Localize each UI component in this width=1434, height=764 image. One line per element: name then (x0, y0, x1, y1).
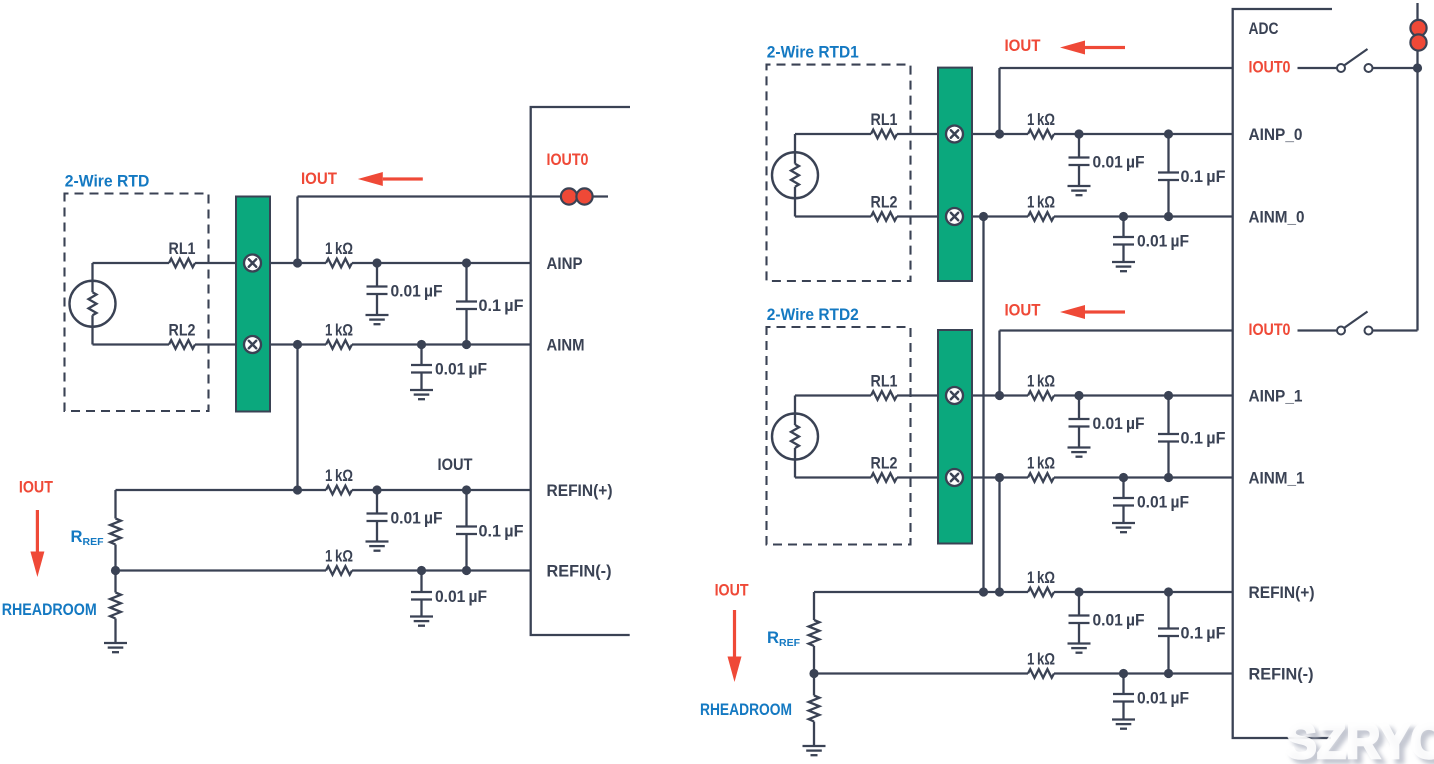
svg-text:0.1 µF: 0.1 µF (1181, 167, 1226, 186)
wire RTD1 RL1 left segment (795, 133, 871, 135)
junction REFIN(+)/AINM_1 vertical (995, 587, 1004, 596)
ground below C2 (410, 373, 433, 400)
resistor RL2 (169, 340, 195, 349)
junction REFIN(+)/C13 node (1074, 587, 1083, 596)
svg-text:IOUT0: IOUT0 (1249, 320, 1291, 339)
junction AINP/C1 node (372, 258, 381, 267)
capacitor C10 0.01uF (AINP_1) (1069, 396, 1090, 427)
wire IOUT ch0 horizontal (1000, 67, 1233, 69)
capacitor C2 0.01uF (AINM) (411, 345, 432, 373)
svg-text:1 kΩ: 1 kΩ (325, 547, 353, 566)
wire RREF to REFIN(-) node (right) (813, 646, 815, 674)
svg-text:0.01 µF: 0.01 µF (1093, 611, 1145, 630)
svg-text:REFIN(-): REFIN(-) (547, 562, 612, 581)
wire RTD1 RL2 left segment (795, 215, 871, 217)
svg-text:0.01 µF: 0.01 µF (435, 360, 487, 379)
wire RHEADROOM to ground (right) (813, 722, 815, 747)
junction AINM/C2 node (417, 340, 426, 349)
wire AINP row from terminal block (270, 262, 326, 264)
wire REFIN(-) node down to RHEADROOM (114, 571, 116, 593)
terminal screw contact lower (RTD1) (946, 208, 963, 225)
wire RREF to REFIN(-) node (114, 545, 116, 571)
capacitor C6 0.1uF (REFIN+-REFIN-) (456, 490, 477, 571)
capacitor C1 0.01uF (AINP) (367, 263, 388, 294)
resistor RL1 (RTD1) (871, 130, 897, 139)
svg-text:1 kΩ: 1 kΩ (1027, 193, 1055, 212)
svg-text:AINM_1: AINM_1 (1249, 469, 1305, 488)
svg-text:AINP_0: AINP_0 (1249, 125, 1303, 144)
svg-text:IOUT: IOUT (1005, 36, 1041, 55)
wire IOUT ch0 vertical to AINP_0 (998, 68, 1000, 134)
svg-text:1 kΩ: 1 kΩ (325, 321, 353, 340)
ground below RHEADROOM (right) (803, 746, 826, 755)
resistor RHEADROOM (right) (809, 696, 820, 722)
wire AINM_1 row from terminal block (972, 476, 1028, 478)
wire RTD1 RL2 right segment (897, 215, 939, 217)
junction REFIN(-)/RREF node (111, 566, 120, 575)
svg-text:1 kΩ: 1 kΩ (325, 466, 353, 485)
svg-text:REFIN(+): REFIN(+) (1249, 583, 1315, 602)
junction REFIN(-)/C15 node (1164, 669, 1173, 678)
junction AINP_0/C9 node (1164, 129, 1173, 138)
svg-text:IOUT: IOUT (715, 581, 749, 600)
wire RTD2 RL1 left segment (795, 394, 871, 396)
wire AINM node down to REFIN(+) node (296, 345, 298, 491)
svg-text:0.1 µF: 0.1 µF (1181, 429, 1226, 448)
junction REFIN(-)/C14 node (1119, 669, 1128, 678)
RTD sensor element (left) (70, 263, 116, 345)
capacitor C7 0.01uF (AINP_0) (1069, 134, 1090, 165)
ADC block outline (left circuit) (531, 107, 630, 635)
svg-text:RHEADROOM: RHEADROOM (2, 600, 97, 619)
junction AINM_1 vertical node (995, 473, 1004, 482)
2-Wire RTD1 dashed box (767, 65, 911, 281)
ground below C5 (410, 600, 433, 626)
wire IOUT0 ch0 pin to switch (1298, 67, 1338, 69)
wire RL2 left segment (93, 343, 170, 345)
terminal block (green bar, left) (236, 197, 270, 412)
resistor RL2 (RTD2) (871, 473, 897, 482)
resistor 1 kOhm (AINP) (326, 259, 352, 268)
RTD2 sensor element (772, 396, 818, 478)
resistor RREF (right) (809, 620, 820, 646)
resistor 1 kOhm (AINM) (326, 340, 352, 349)
junction REFIN(-)/C6 node (462, 566, 471, 575)
capacitor C8 0.01uF (AINM_0) (1113, 217, 1134, 245)
junction AINM/C3 node (462, 340, 471, 349)
resistor RL2 (RTD1) (871, 212, 897, 221)
wire IOUT horizontal to IOUT0 pin (298, 195, 609, 197)
svg-text:0.01 µF: 0.01 µF (1137, 689, 1189, 708)
capacitor C12 0.1uF (AINP_1-AINM_1) (1158, 396, 1179, 478)
svg-text:AINP_1: AINP_1 (1249, 387, 1303, 406)
wire RL1 right segment into terminal block (195, 262, 237, 264)
ground below C8 (1112, 245, 1135, 272)
IOUT0 terminal red circles (right, stacked) (1410, 20, 1426, 36)
junction AINM_1/C11 node (1119, 473, 1128, 482)
svg-text:RL2: RL2 (871, 193, 898, 212)
svg-text:IOUT: IOUT (19, 478, 53, 497)
wire REFIN(-) node down to RHEADROOM (right) (813, 674, 815, 696)
ground below C11 (1112, 506, 1135, 533)
capacitor C14 0.01uF (REFIN- right) (1113, 674, 1134, 702)
terminal screw contact lower (left) (244, 336, 261, 353)
capacitor C15 0.1uF (REFIN right) (1158, 592, 1179, 674)
wire AINM_1 row to ADC (1054, 476, 1233, 478)
resistor RHEADROOM (left) (110, 593, 121, 619)
svg-text:IOUT: IOUT (301, 169, 337, 188)
junction REFIN(+)/C4 node (372, 485, 381, 494)
svg-text:IOUT: IOUT (438, 455, 473, 474)
junction REFIN(+)/AINM_0 vertical (979, 587, 988, 596)
junction AINP_0/IOUT node (995, 129, 1004, 138)
svg-text:AINM_0: AINM_0 (1249, 208, 1305, 227)
wire IOUT0 bus vertical (top right) (1416, 3, 1418, 331)
svg-text:0.01 µF: 0.01 µF (391, 509, 443, 528)
svg-text:0.01 µF: 0.01 µF (1093, 153, 1145, 172)
ground below C1 (366, 294, 389, 324)
ground below C4 (366, 521, 389, 551)
wire IOUT ch1 horizontal (1000, 329, 1233, 331)
junction AINM_0 vertical node (979, 212, 988, 221)
switch S2 (IOUT0 ch1) (1337, 312, 1373, 335)
capacitor C3 0.1uF (AINP-AINM) (456, 263, 477, 345)
wire IOUT vertical drop to AINP node (296, 197, 298, 264)
wire REFIN(-) row left segment (right ckt) (814, 672, 1028, 674)
wire REFIN(-) row to ADC (right ckt) (1054, 672, 1233, 674)
svg-text:RL2: RL2 (871, 454, 898, 473)
current direction arrow IOUT (right ch1) (1060, 305, 1125, 319)
current direction arrow IOUT down (left) (30, 510, 44, 577)
svg-text:AINP: AINP (547, 254, 583, 273)
capacitor C13 0.01uF (REFIN+ right) (1069, 592, 1090, 623)
switch S1 (IOUT0 ch0) (1337, 49, 1373, 72)
wire REFIN(+) row left segment (116, 489, 327, 491)
wire RL2 right segment into terminal block (195, 343, 237, 345)
svg-text:0.01 µF: 0.01 µF (391, 282, 443, 301)
capacitor C5 0.01uF (REFIN-) (411, 571, 432, 600)
wire REFIN(-) row left segment (116, 569, 327, 571)
wire AINP_0 row from terminal block (972, 133, 1028, 135)
wire REFIN(+) row to ADC (right ckt) (1054, 591, 1233, 593)
svg-text:2-Wire RTD: 2-Wire RTD (65, 171, 150, 190)
wire RTD2 RL1 right segment (897, 394, 939, 396)
current direction arrow IOUT (left top) (358, 172, 423, 186)
junction AINM_0/C9 node (1164, 212, 1173, 221)
wire AINM_0 row to ADC (1054, 215, 1233, 217)
wire REFIN(-) row to ADC (352, 569, 531, 571)
wire AINM_1 down to REFIN(+) node (998, 478, 1000, 593)
terminal screw contact upper (RTD2) (946, 387, 963, 404)
resistor 1 kOhm (REFIN+) (326, 486, 352, 495)
resistor RL1 (169, 259, 195, 268)
wire AINM_0 down to REFIN(+) node (982, 217, 984, 593)
svg-text:1 kΩ: 1 kΩ (1027, 110, 1055, 129)
watermark SZRYC (1285, 713, 1434, 764)
svg-text:REFIN(+): REFIN(+) (547, 481, 613, 500)
svg-text:ADC: ADC (1249, 19, 1279, 38)
ADC block outline (right circuit) (1233, 9, 1332, 738)
wire REFIN(+) row left segment (right ckt) (814, 591, 1028, 593)
svg-text:AINM: AINM (547, 336, 585, 355)
wire RHEADROOM to ground (114, 619, 116, 644)
resistor 1 kOhm (REFIN- right) (1028, 669, 1054, 678)
wire IOUT0 ch1 pin to switch (1298, 329, 1338, 331)
IOUT0 terminal red circles (left) (561, 188, 577, 204)
svg-text:1 kΩ: 1 kΩ (1027, 650, 1055, 669)
junction AINP_1/C10 node (1074, 391, 1083, 400)
svg-text:0.1 µF: 0.1 µF (479, 522, 524, 541)
ground below C7 (1068, 165, 1091, 195)
terminal block (green bar, RTD1) (938, 68, 972, 281)
wire REFIN(+) corner down to RREF (right) (813, 592, 815, 620)
RTD1 sensor element (772, 134, 818, 217)
svg-text:0.01 µF: 0.01 µF (1093, 414, 1145, 433)
terminal screw contact upper (RTD1) (946, 126, 963, 143)
wire RTD2 RL2 left segment (795, 476, 871, 478)
svg-text:0.01 µF: 0.01 µF (1137, 232, 1189, 251)
junction IOUT0 bus / switch 1 (1413, 63, 1422, 72)
junction REFIN(+)/C15 node (1164, 587, 1173, 596)
junction AINP_1/C12 node (1164, 391, 1173, 400)
current direction arrow IOUT down (right) (728, 610, 742, 682)
wire AINM_0 row from terminal block (972, 215, 1028, 217)
wire REFIN(+) row to ADC (352, 489, 531, 491)
junction REFIN(-)/RREF node (right) (809, 669, 818, 678)
junction REFIN(+)/vertical node (293, 485, 302, 494)
svg-text:0.01 µF: 0.01 µF (1137, 493, 1189, 512)
wire REFIN(+) corner down to RREF (114, 490, 116, 519)
wire switch S1 to bus (1373, 67, 1418, 69)
resistor 1 kOhm (REFIN+ right) (1028, 588, 1054, 597)
svg-text:1 kΩ: 1 kΩ (325, 239, 353, 258)
capacitor C11 0.01uF (AINM_1) (1113, 478, 1134, 506)
resistor 1 kOhm (REFIN-) (326, 566, 352, 575)
junction AINP/IOUT node (293, 258, 302, 267)
wire RTD2 RL2 right segment (897, 476, 939, 478)
capacitor C9 0.1uF (AINP_0-AINM_0) (1158, 134, 1179, 217)
svg-text:1 kΩ: 1 kΩ (1027, 568, 1055, 587)
svg-text:2-Wire RTD1: 2-Wire RTD1 (767, 43, 859, 62)
2-Wire RTD2 dashed box (767, 327, 911, 545)
junction AINM_0/C8 node (1119, 212, 1128, 221)
capacitor C4 0.01uF (REFIN+) (367, 490, 388, 521)
wire IOUT ch1 vertical to AINP_1 (998, 331, 1000, 396)
junction AINM_1/C12 node (1164, 473, 1173, 482)
svg-text:IOUT0: IOUT0 (547, 150, 589, 169)
junction REFIN(+)/C6 node (462, 485, 471, 494)
svg-text:REFIN(-): REFIN(-) (1249, 665, 1314, 684)
ground below C13 (1068, 623, 1091, 653)
junction AINP/C3 node (462, 258, 471, 267)
resistor 1 kOhm (AINP_0) (1028, 130, 1054, 139)
wire AINP row to ADC (352, 262, 531, 264)
svg-text:IOUT0: IOUT0 (1249, 58, 1291, 77)
ground below RHEADROOM (left) (104, 643, 127, 652)
svg-text:1 kΩ: 1 kΩ (1027, 454, 1055, 473)
resistor 1 kOhm (AINM_0) (1028, 212, 1054, 221)
wire AINP_1 row from terminal block (972, 394, 1028, 396)
svg-text:RL1: RL1 (871, 110, 898, 129)
svg-text:2-Wire RTD2: 2-Wire RTD2 (767, 305, 859, 324)
svg-text:0.01 µF: 0.01 µF (435, 587, 487, 606)
resistor RREF (left) (110, 519, 121, 545)
wire AINP_0 row to ADC (1054, 133, 1233, 135)
svg-text:SZRYC: SZRYC (1285, 713, 1434, 764)
junction AINP_1/IOUT node (995, 391, 1004, 400)
svg-text:RHEADROOM: RHEADROOM (700, 700, 792, 719)
svg-text:0.1 µF: 0.1 µF (479, 296, 524, 315)
wire RTD1 RL1 right segment (897, 133, 939, 135)
2-Wire RTD dashed box (65, 194, 209, 412)
terminal screw contact lower (RTD2) (946, 469, 963, 486)
svg-text:1 kΩ: 1 kΩ (1027, 372, 1055, 391)
ground below C14 (1112, 702, 1135, 729)
svg-text:RL2: RL2 (169, 321, 196, 340)
terminal block (green bar, RTD2) (938, 330, 972, 544)
wire AINM row to ADC (352, 343, 531, 345)
current direction arrow IOUT (right ch0) (1060, 41, 1125, 55)
svg-text:RL1: RL1 (871, 372, 898, 391)
svg-text:RL1: RL1 (169, 239, 196, 258)
ground below C10 (1068, 427, 1091, 457)
wire switch S2 to bus corner (1373, 329, 1418, 331)
junction REFIN(-)/C5 node (417, 566, 426, 575)
terminal screw contact upper (left) (244, 255, 261, 272)
wire AINP_1 row to ADC (1054, 394, 1233, 396)
junction AINM/REFIN vertical node (293, 340, 302, 349)
wire RL1 left segment (93, 262, 170, 264)
resistor 1 kOhm (AINP_1) (1028, 391, 1054, 400)
resistor RL1 (RTD2) (871, 391, 897, 400)
wire AINM row from terminal block (270, 343, 326, 345)
svg-text:IOUT: IOUT (1005, 301, 1041, 320)
svg-text:0.1 µF: 0.1 µF (1181, 624, 1226, 643)
junction AINP_0/C7 node (1074, 129, 1083, 138)
resistor 1 kOhm (AINM_1) (1028, 473, 1054, 482)
